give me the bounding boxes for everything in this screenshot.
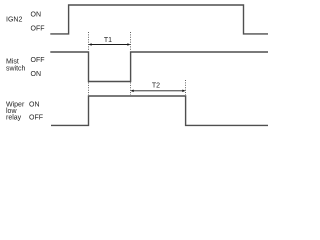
node dotted line at T1 end x=130.5 upper xyxy=(130,32,132,51)
wire Wiper low relay waveform xyxy=(51,96,268,125)
wire Mist switch waveform xyxy=(50,52,268,82)
wire IGN2 waveform xyxy=(50,5,268,34)
node dotted line at T2 end x=185.5 xyxy=(185,80,187,95)
svg-text:OFF: OFF xyxy=(29,114,43,121)
svg-text:ON: ON xyxy=(31,12,42,19)
svg-text:T2: T2 xyxy=(152,82,160,89)
svg-text:OFF: OFF xyxy=(31,26,45,33)
node dotted line at T1 start x=88.5 lower xyxy=(88,83,90,96)
svg-text:Mist: Mist xyxy=(6,59,19,66)
svg-text:IGN2: IGN2 xyxy=(6,17,22,24)
svg-text:OFF: OFF xyxy=(31,57,45,64)
wire T1 dimension arrow xyxy=(88,43,130,46)
svg-text:T1: T1 xyxy=(104,37,112,44)
svg-text:relay: relay xyxy=(6,114,22,121)
svg-text:ON: ON xyxy=(29,101,40,108)
node dotted line at T1 start x=88.5 upper xyxy=(88,32,90,51)
node dotted line at T1 end x=130.5 lower xyxy=(130,83,132,96)
svg-text:ON: ON xyxy=(31,71,42,78)
wire T2 dimension arrow xyxy=(130,90,185,93)
svg-text:switch: switch xyxy=(6,66,26,73)
